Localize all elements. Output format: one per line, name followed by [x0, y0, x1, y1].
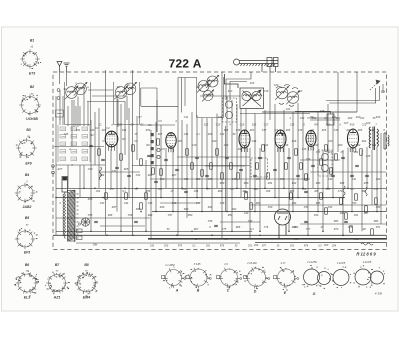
- wire: [66, 72, 68, 86]
- terminal circle: [57, 97, 60, 100]
- svg-text:R12: R12: [238, 148, 243, 151]
- wire: [380, 133, 382, 224]
- svg-text:C84: C84: [332, 245, 337, 248]
- capacitor C15: [273, 169, 277, 170]
- junction: [206, 188, 208, 190]
- wire: [128, 108, 130, 198]
- resistor R41: [210, 163, 213, 169]
- svg-text:2M: 2M: [345, 129, 349, 132]
- wire: [221, 72, 223, 239]
- wire: [283, 110, 285, 188]
- capacitor C13: [253, 175, 257, 176]
- svg-text:C47: C47: [196, 202, 201, 205]
- svg-text:C51: C51: [304, 206, 309, 209]
- svg-text:C21: C21: [286, 108, 291, 111]
- resistor R13: [256, 163, 259, 169]
- resistor R30: [245, 193, 248, 199]
- capacitor C19: [331, 175, 335, 176]
- svg-text:C40: C40: [370, 129, 375, 132]
- wire: [200, 95, 240, 97]
- resistor R18: [305, 174, 308, 180]
- svg-text:C30: C30: [300, 117, 305, 120]
- resistor R33: [140, 203, 143, 209]
- svg-text:C17: C17: [264, 124, 269, 127]
- svg-text:R10: R10: [350, 124, 355, 127]
- svg-text:C18: C18: [290, 124, 295, 127]
- svg-text:D: D: [254, 290, 257, 294]
- wire: [56, 230, 252, 232]
- resistor R23: [340, 198, 343, 204]
- svg-text:R35: R35: [364, 182, 369, 185]
- svg-text:R10: R10: [212, 140, 217, 143]
- junction: [160, 197, 162, 199]
- wire: [71, 100, 73, 147]
- svg-text:R20: R20: [348, 117, 353, 120]
- junction: [120, 231, 122, 233]
- trimmer can D bottom view: [245, 267, 266, 288]
- junction: [140, 211, 142, 213]
- wire: [236, 104, 238, 188]
- svg-text:R31: R31: [268, 182, 273, 185]
- svg-text:C32: C32: [136, 174, 141, 177]
- svg-text:R24: R24: [286, 129, 291, 132]
- wire: [371, 150, 373, 205]
- svg-text:R15: R15: [376, 116, 381, 119]
- wire: [165, 148, 167, 188]
- junction: [211, 235, 213, 237]
- resistor R10: [216, 149, 219, 155]
- svg-text:C18: C18: [302, 148, 307, 151]
- svg-text:R40: R40: [184, 208, 189, 211]
- capacitor C3: [115, 167, 119, 168]
- wire: [59, 90, 61, 125]
- junction: [283, 188, 285, 190]
- svg-text:R26: R26: [148, 174, 153, 177]
- wire: [206, 118, 208, 188]
- svg-text:ET3: ET3: [29, 72, 35, 76]
- wire: [79, 106, 81, 126]
- capacitor C18: [311, 165, 315, 166]
- svg-text:C30: C30: [88, 168, 93, 171]
- wire: [140, 88, 142, 106]
- wire: [124, 102, 126, 156]
- wire: [92, 95, 125, 97]
- osc coil S4b: [252, 91, 261, 100]
- svg-text:1M: 1M: [242, 190, 245, 193]
- svg-text:4 17: 4 17: [281, 262, 286, 265]
- wire: [310, 171, 386, 173]
- terminal circle: [52, 165, 55, 168]
- svg-text:C48: C48: [220, 202, 225, 205]
- wire: [155, 122, 157, 212]
- resistor R34: [125, 193, 128, 199]
- svg-text:C33: C33: [316, 151, 321, 154]
- trimmer can K1: [355, 269, 371, 285]
- wire elbow to aerial: [326, 86, 379, 101]
- junction: [332, 197, 334, 199]
- svg-text:C20: C20: [328, 140, 333, 143]
- trimmer can G1: [304, 269, 320, 285]
- svg-text:R34: R34: [340, 182, 345, 185]
- svg-text:C12: C12: [224, 144, 229, 147]
- svg-text:C71: C71: [374, 188, 379, 191]
- wire elbow: [225, 74, 239, 88]
- wire: [150, 130, 152, 239]
- svg-text:C61: C61: [354, 214, 359, 217]
- capacitor C9: [195, 157, 199, 158]
- wire: [288, 148, 290, 231]
- resistor R22: [335, 154, 338, 160]
- svg-text:C37: C37: [262, 129, 267, 132]
- junction: [145, 231, 147, 233]
- svg-text:R51: R51: [228, 214, 233, 217]
- wire: [322, 150, 324, 231]
- wire: [77, 97, 79, 128]
- wire: [117, 99, 119, 127]
- resistor R43: [285, 163, 288, 169]
- svg-text:C56: C56: [128, 214, 133, 217]
- wire: [54, 146, 104, 148]
- capacitor C25: [134, 221, 138, 222]
- junction: [90, 231, 92, 233]
- capacitor C11: [225, 157, 229, 158]
- junction: [322, 231, 324, 233]
- junction: [317, 211, 319, 213]
- tube B3 (EF9) envelope: [166, 133, 176, 149]
- svg-text:C32: C32: [360, 117, 365, 120]
- wire elbow to aerial 2: [329, 88, 375, 103]
- svg-text:C34: C34: [306, 158, 311, 161]
- tube socket B4 (2AB2) bottom view: [15, 183, 36, 204]
- svg-text:R71: R71: [376, 226, 381, 229]
- wire: [327, 104, 329, 188]
- wire: [56, 217, 150, 219]
- svg-text:C45: C45: [64, 133, 69, 136]
- resistor wavy: [343, 186, 345, 198]
- tube B6 envelope: [306, 131, 316, 147]
- svg-text:1M: 1M: [362, 228, 365, 231]
- capacitor C20: [341, 157, 345, 158]
- wire: [152, 211, 386, 213]
- svg-text:R57: R57: [110, 188, 115, 191]
- svg-text:R22: R22: [354, 151, 359, 154]
- svg-text:C81: C81: [206, 246, 211, 248]
- svg-text:R63: R63: [326, 188, 331, 191]
- svg-text:R47: R47: [364, 212, 369, 215]
- svg-text:R60: R60: [218, 190, 223, 193]
- svg-text:C43: C43: [90, 129, 95, 132]
- resistor R17: [300, 163, 303, 169]
- wire: [201, 118, 203, 212]
- wire: [148, 238, 387, 240]
- svg-text:C41: C41: [352, 178, 357, 181]
- svg-text:S15: S15: [250, 82, 255, 85]
- junction: [226, 211, 228, 213]
- trimmer can C bottom view: [218, 268, 238, 288]
- svg-text:R58: R58: [146, 190, 151, 193]
- resistor R27: [320, 193, 323, 199]
- wire: [160, 125, 162, 198]
- svg-text:C68: C68: [266, 190, 271, 193]
- junction: [176, 235, 178, 237]
- wire: [332, 112, 334, 198]
- svg-text:R67: R67: [194, 228, 199, 231]
- capacitor C14: [258, 157, 262, 158]
- svg-text:EXT: EXT: [58, 168, 63, 171]
- capacitor C6: [154, 181, 158, 182]
- svg-text:R68: R68: [236, 226, 241, 229]
- wire: [94, 112, 96, 165]
- wire: [317, 112, 319, 212]
- svg-text:R69: R69: [292, 226, 297, 229]
- wire: [177, 78, 179, 236]
- svg-text:R28: R28: [196, 178, 201, 181]
- resistor R25: [350, 226, 353, 232]
- wire: [186, 124, 188, 218]
- svg-text:R18: R18: [314, 144, 319, 147]
- wire: [141, 87, 157, 89]
- svg-text:1M: 1M: [310, 129, 313, 132]
- wire: [136, 116, 138, 160]
- svg-text:C63: C63: [324, 244, 329, 247]
- svg-text:R50: R50: [188, 214, 193, 217]
- svg-text:R76: R76: [220, 246, 225, 248]
- svg-text:R61: R61: [254, 188, 259, 191]
- svg-text:C36: C36: [232, 178, 237, 181]
- wire: [62, 96, 64, 125]
- svg-text:C35: C35: [208, 178, 213, 181]
- speaker: [384, 133, 389, 149]
- tube socket B5 (EF5) bottom view: [15, 229, 36, 250]
- svg-text:C36: C36: [236, 129, 241, 132]
- svg-text:C60: C60: [314, 214, 319, 217]
- can E tabs: [274, 276, 299, 289]
- svg-text:R16: R16: [292, 140, 297, 143]
- svg-text:C39: C39: [334, 129, 339, 132]
- output transformer: [369, 127, 378, 151]
- wire: [67, 165, 69, 188]
- junction: [307, 235, 309, 237]
- svg-text:R37: R37: [112, 206, 117, 209]
- tube socket B6 (EL3) bottom view: [16, 272, 39, 293]
- junction: [249, 238, 251, 240]
- junction: [351, 211, 353, 213]
- svg-text:C55: C55: [88, 214, 93, 217]
- trimmer can H1: [333, 270, 349, 286]
- trimmer can B bottom view: [188, 268, 208, 288]
- svg-text:S13: S13: [228, 90, 233, 93]
- wire: [56, 197, 345, 199]
- svg-text:2 1-4052: 2 1-4052: [164, 264, 175, 267]
- resistor R40: [160, 169, 163, 175]
- svg-text:C35: C35: [366, 155, 371, 158]
- rectifier AZ1 circle: [275, 209, 291, 239]
- wire: [100, 225, 145, 227]
- junction: [191, 231, 193, 233]
- IF transformer box 1: [223, 98, 237, 122]
- capacitor C29: [184, 191, 188, 192]
- resistor R7: [186, 149, 189, 155]
- IF box3 coil b: [322, 165, 329, 172]
- resistor R9: [201, 170, 204, 176]
- IF box1 coil b: [225, 111, 232, 118]
- resistor R29: [290, 193, 293, 199]
- resistor R14: [262, 145, 265, 151]
- capacitor C24: [94, 221, 98, 222]
- svg-text:B4: B4: [25, 173, 29, 177]
- junction: [327, 188, 329, 190]
- svg-text:R23: R23: [250, 129, 255, 132]
- svg-text:C22: C22: [356, 144, 361, 147]
- coil screen box 1: [65, 82, 91, 125]
- capacitor C27: [304, 221, 308, 222]
- resistor R36: [355, 194, 358, 200]
- capacitor C12: [239, 169, 243, 170]
- dial lamp: [81, 218, 89, 226]
- svg-text:C31: C31: [336, 117, 341, 120]
- tube socket B7 (AZ1) bottom view: [46, 273, 68, 294]
- wire: [59, 72, 61, 84]
- osc box cross arrows: [243, 90, 262, 107]
- osc coil box: [240, 88, 264, 109]
- wire: [105, 70, 107, 235]
- svg-text:3 9-65: 3 9-65: [194, 263, 201, 266]
- capacitor C17: [296, 175, 300, 176]
- trimmer can G2: [318, 272, 331, 285]
- svg-text:S30: S30: [150, 246, 155, 248]
- svg-text:C14: C14: [252, 140, 257, 143]
- svg-text:C: C: [227, 289, 230, 293]
- wire: [307, 147, 309, 236]
- junction: [376, 211, 378, 213]
- svg-text:C40: C40: [328, 178, 333, 181]
- coil screen box 3: [197, 77, 224, 118]
- svg-text:R64: R64: [362, 190, 367, 193]
- junction: [172, 211, 174, 213]
- capacitor C16: [287, 157, 291, 158]
- svg-text:R43: R43: [256, 202, 261, 205]
- wire: [205, 165, 245, 167]
- wire: [75, 106, 77, 126]
- wire: [110, 150, 112, 189]
- capacitor C31: [304, 191, 308, 192]
- junction: [94, 188, 96, 190]
- svg-text:C50: C50: [268, 206, 273, 209]
- mains transformer: [63, 190, 79, 241]
- trimmer can E bottom view: [275, 268, 295, 288]
- svg-text:C78: C78: [348, 226, 353, 229]
- wire: [141, 105, 178, 107]
- svg-text:R24: R24: [100, 174, 105, 177]
- resistor R26: [360, 149, 363, 155]
- wire: [302, 112, 304, 188]
- junction: [264, 188, 266, 190]
- wire: [211, 118, 213, 212]
- wire: [255, 242, 387, 244]
- svg-text:R56: R56: [354, 238, 359, 241]
- junction: [342, 235, 344, 237]
- resistor wavy horizontal: [361, 243, 373, 245]
- junction: [150, 238, 152, 240]
- svg-text:C66: C66: [194, 190, 199, 193]
- resistor R elbow: [327, 114, 334, 125]
- resistor R15: [267, 173, 270, 179]
- wire: [297, 103, 299, 198]
- svg-text:R26: R26: [358, 129, 363, 132]
- resistor R28: [325, 208, 328, 214]
- wire: [83, 165, 85, 188]
- svg-text:R31: R31: [76, 129, 81, 132]
- capacitor C26: [214, 225, 218, 226]
- svg-text:C67: C67: [230, 188, 235, 191]
- svg-text:2 0: 2 0: [223, 263, 228, 266]
- svg-text:C20: C20: [274, 84, 279, 87]
- wire: [53, 234, 387, 236]
- svg-text:B2: B2: [30, 85, 34, 89]
- wire: [226, 96, 228, 212]
- junction: [342, 235, 344, 237]
- svg-text:2 14-P52: 2 14-P52: [306, 261, 317, 264]
- svg-text:R19: R19: [312, 117, 317, 120]
- svg-text:R29: R29: [220, 182, 225, 185]
- antenna symbol: [57, 62, 62, 73]
- resistor R31: [250, 203, 253, 209]
- resistor R24: [345, 213, 348, 219]
- svg-text:C76: C76: [264, 226, 269, 229]
- wire: [220, 221, 260, 223]
- svg-text:B6: B6: [25, 263, 29, 267]
- tube B4 envelope: [239, 130, 250, 148]
- wire: [88, 89, 113, 91]
- can B tabs: [186, 276, 211, 289]
- wire: [240, 113, 310, 115]
- svg-text:R39: R39: [160, 206, 165, 209]
- junction: [106, 235, 108, 237]
- wire: [87, 102, 89, 127]
- svg-text:C75: C75: [222, 228, 227, 231]
- pin number specks: [302, 265, 385, 289]
- resistor R1: [98, 149, 101, 155]
- svg-text:S21: S21: [118, 124, 123, 127]
- wire route elbow: [226, 72, 251, 100]
- resistor R11: [230, 163, 233, 169]
- svg-text:4-'538: 4-'538: [375, 292, 383, 296]
- junction: [132, 235, 134, 237]
- junction: [102, 197, 104, 199]
- svg-text:C82: C82: [248, 246, 253, 248]
- wire: [116, 96, 118, 212]
- svg-text:C45: C45: [148, 202, 153, 205]
- junction: [201, 211, 203, 213]
- coil screen box 2: [114, 82, 140, 125]
- junction: [211, 235, 213, 237]
- svg-text:EF5: EF5: [24, 251, 30, 255]
- capacitor C21: [350, 175, 354, 176]
- resistor R6: [157, 139, 160, 145]
- svg-text:C19: C19: [264, 90, 269, 93]
- junction: [259, 231, 261, 233]
- tuning gang: [234, 58, 279, 73]
- svg-text:C65: C65: [158, 188, 163, 191]
- tube socket B1 (ET3) bottom view: [20, 49, 40, 69]
- svg-text:C59: C59: [248, 220, 253, 223]
- svg-text:C62: C62: [254, 244, 259, 247]
- capacitor C2: [101, 159, 105, 160]
- wire: [274, 104, 276, 198]
- svg-text:B1: B1: [30, 39, 34, 43]
- svg-text:C34: C34: [184, 178, 189, 181]
- wire: [100, 171, 140, 173]
